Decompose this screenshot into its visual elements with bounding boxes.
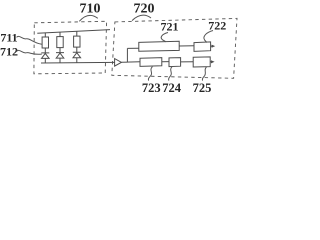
branch 1: stub [41, 31, 81, 63]
output arrow from 722 [211, 45, 213, 47]
leader for 721 [161, 33, 168, 42]
box 721 [139, 41, 179, 51]
buffer amplifier (triangle) [115, 59, 122, 67]
dashed box 720 [112, 18, 237, 78]
leader for 712 [17, 50, 42, 54]
leader for 725 [202, 67, 206, 81]
leader for 724 [169, 67, 172, 81]
svg-text:721: 721 [161, 20, 179, 34]
diode D3 [73, 52, 81, 62]
wire R3->D3 [76, 47, 78, 52]
svg-text:711: 711 [0, 31, 17, 45]
leader for 710 [79, 15, 98, 21]
box 724 [169, 58, 181, 67]
wire stub rail->R1 [44, 33, 46, 37]
wire stub rail->R3 [76, 31, 78, 36]
wire 721 to 722 [179, 45, 194, 47]
wire R2->D2 [59, 48, 61, 53]
svg-text:722: 722 [208, 19, 226, 33]
wire 723 to 724 [162, 61, 169, 63]
leader for 711 [17, 36, 42, 44]
box 722 [194, 42, 211, 52]
leader for 723 [148, 67, 152, 81]
svg-text:723: 723 [142, 81, 161, 95]
svg-text:712: 712 [0, 45, 18, 59]
svg-text:710: 710 [80, 2, 101, 17]
wire: horizontal into box 721 [127, 47, 138, 49]
box 723 [140, 58, 162, 67]
wire: buffer output to box 723 [121, 61, 140, 64]
resistor R3 [74, 36, 80, 47]
output arrow from 725 [210, 61, 212, 63]
diode D2 [56, 53, 64, 63]
resistor R2 [57, 37, 63, 48]
svg-text:724: 724 [162, 81, 182, 95]
dashed box 710 [34, 21, 107, 74]
box 725 [193, 57, 210, 67]
svg-text:725: 725 [193, 81, 212, 95]
diode D1 [41, 53, 49, 63]
leader for 720 [132, 15, 151, 20]
top rail (wire) [37, 30, 110, 34]
wire R1->D1 [44, 48, 46, 53]
svg-text:720: 720 [134, 2, 155, 17]
wire stub rail2->branch2 [59, 32, 61, 37]
leader for 722 [204, 31, 213, 43]
resistor R1 [42, 37, 48, 48]
wire 724 to 725 [181, 61, 194, 63]
bottom rail (wire) [41, 61, 115, 64]
wire: vertical branch up [126, 48, 128, 62]
